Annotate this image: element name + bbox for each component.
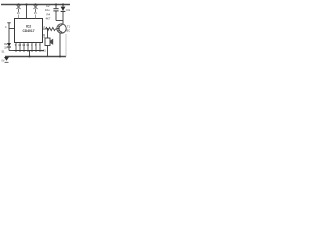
pin 3 stub right <box>43 34 46 36</box>
node dot bus-rail <box>29 56 31 58</box>
svg-text:LS1: LS1 <box>42 50 47 53</box>
switch S1 on rail <box>17 5 21 19</box>
svg-text:0V: 0V <box>2 60 5 63</box>
svg-text:CD4017: CD4017 <box>22 29 34 33</box>
wire pin to rail <box>26 5 28 19</box>
node dot C2 rail <box>55 3 57 5</box>
svg-text:4K7: 4K7 <box>46 17 51 21</box>
node dot <box>25 3 27 5</box>
capacitor C2 <box>53 5 62 21</box>
LED D2 <box>7 43 11 51</box>
resistor R4 zigzag <box>43 27 58 30</box>
svg-text:10u: 10u <box>45 8 50 12</box>
node dot emitter-rail <box>59 56 61 58</box>
diode D1 <box>61 5 66 24</box>
wire bus to ground rail <box>29 51 31 57</box>
wire faint right <box>65 34 67 57</box>
node dot S1 <box>17 3 19 5</box>
node dot base <box>47 28 49 30</box>
switch S2 on rail <box>34 5 38 19</box>
svg-text:D1: D1 <box>67 8 71 12</box>
wire emitter down <box>59 33 61 56</box>
wire LED to bus <box>9 50 14 52</box>
transistor Q1 <box>57 24 66 33</box>
capacitor C1 plate <box>7 22 10 24</box>
wire ground bus <box>14 50 45 52</box>
node dot D1 rail <box>62 3 64 5</box>
wire bottom ground rail <box>5 56 66 58</box>
wire left vertical <box>8 23 10 43</box>
IC bottom pins <box>16 43 40 53</box>
wire top +V rail <box>1 4 70 6</box>
node dot S2 <box>34 3 36 5</box>
wire base node to speaker <box>47 29 49 38</box>
svg-text:BC: BC <box>67 29 71 33</box>
ground symbol <box>2 57 10 63</box>
wire IC left pin <box>9 28 15 30</box>
op-amp U1 (IC box CD4017) <box>15 19 43 43</box>
pin number row <box>15 44 41 47</box>
wire speaker to ground <box>47 46 49 57</box>
speaker LS1 <box>45 38 53 46</box>
